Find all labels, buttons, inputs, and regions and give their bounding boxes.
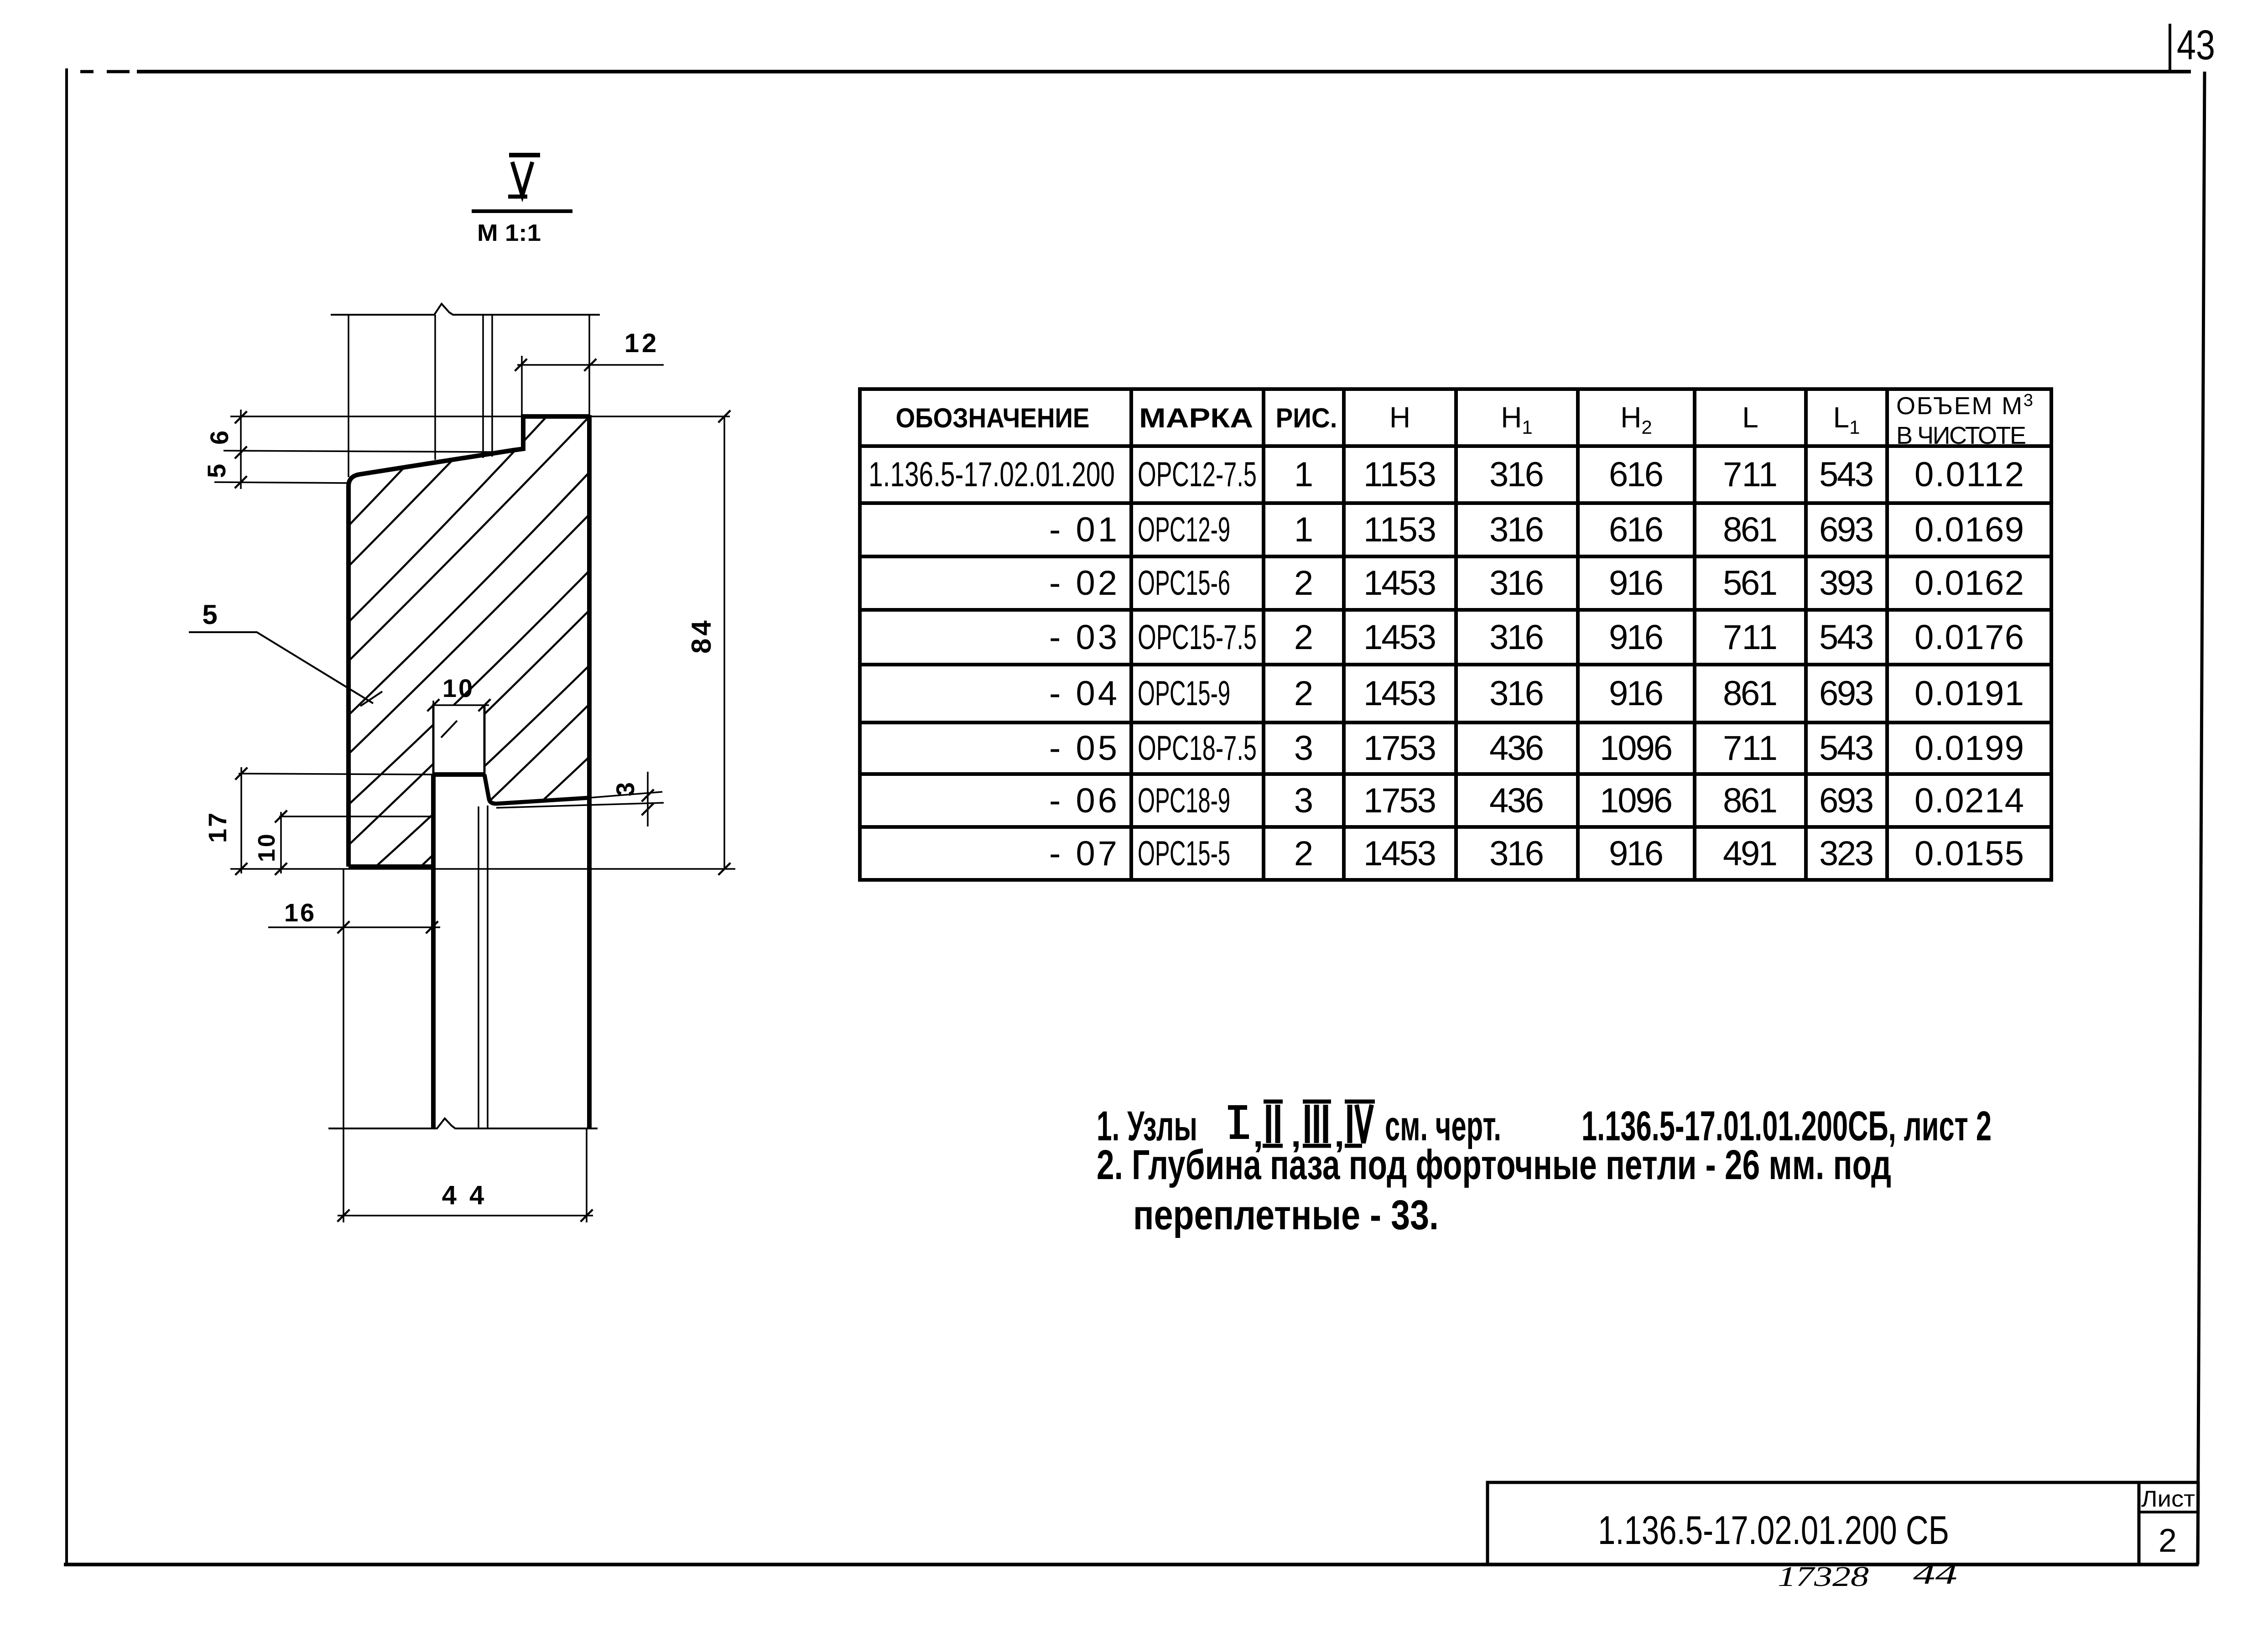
svg-text:2: 2 xyxy=(1294,618,1313,657)
svg-text:316: 316 xyxy=(1489,564,1544,603)
svg-text:436: 436 xyxy=(1489,729,1544,768)
svg-text:1753: 1753 xyxy=(1363,729,1436,768)
svg-text:543: 543 xyxy=(1819,729,1874,768)
svg-text:0.0162: 0.0162 xyxy=(1914,564,2024,603)
svg-text:861: 861 xyxy=(1723,674,1778,713)
svg-text:711: 711 xyxy=(1723,729,1778,768)
svg-text:1453: 1453 xyxy=(1363,834,1436,873)
svg-text:693: 693 xyxy=(1819,781,1874,820)
svg-text:ОРС15-7.5: ОРС15-7.5 xyxy=(1138,618,1257,657)
svg-text:84: 84 xyxy=(686,618,717,654)
svg-text:1.136.5-17.02.01.200: 1.136.5-17.02.01.200 xyxy=(869,455,1115,494)
svg-text:МАРКА: МАРКА xyxy=(1139,403,1253,433)
svg-text:916: 916 xyxy=(1609,674,1664,713)
svg-text:0.0155: 0.0155 xyxy=(1914,834,2024,873)
svg-text:861: 861 xyxy=(1723,781,1778,820)
svg-text:2: 2 xyxy=(2159,1523,2177,1559)
svg-text:ОРС15-6: ОРС15-6 xyxy=(1138,564,1230,603)
svg-text:711: 711 xyxy=(1723,455,1778,494)
svg-text:4 4: 4 4 xyxy=(442,1180,487,1210)
svg-text:693: 693 xyxy=(1819,674,1874,713)
svg-text:1: 1 xyxy=(1294,510,1313,549)
svg-text:17328: 17328 xyxy=(1778,1561,1869,1592)
svg-text:1753: 1753 xyxy=(1363,781,1436,820)
svg-text:491: 491 xyxy=(1723,834,1778,873)
svg-text:2: 2 xyxy=(1294,564,1313,603)
svg-text:3: 3 xyxy=(1294,729,1313,768)
svg-text:0.0112: 0.0112 xyxy=(1914,455,2024,494)
svg-text:ОРС12-7.5: ОРС12-7.5 xyxy=(1138,455,1257,494)
svg-text:711: 711 xyxy=(1723,618,1778,657)
svg-text:1153: 1153 xyxy=(1363,455,1436,494)
svg-text:1: 1 xyxy=(1294,455,1313,494)
svg-text:323: 323 xyxy=(1819,834,1874,873)
svg-text:ОБОЗНАЧЕНИЕ: ОБОЗНАЧЕНИЕ xyxy=(896,403,1090,433)
svg-text:переплетные - 33.: переплетные - 33. xyxy=(1133,1192,1439,1238)
svg-text:1453: 1453 xyxy=(1363,674,1436,713)
svg-text:12: 12 xyxy=(624,328,660,358)
svg-text:ОРС18-7.5: ОРС18-7.5 xyxy=(1138,729,1257,768)
svg-text:Лист: Лист xyxy=(2141,1486,2195,1512)
svg-text:916: 916 xyxy=(1609,564,1664,603)
svg-text:- 04: - 04 xyxy=(1049,674,1120,713)
svg-text:44: 44 xyxy=(1913,1559,1957,1590)
svg-text:0.0169: 0.0169 xyxy=(1914,510,2024,549)
svg-text:316: 316 xyxy=(1489,674,1544,713)
svg-text:Н: Н xyxy=(1389,401,1410,434)
svg-text:РИС.: РИС. xyxy=(1276,403,1337,433)
svg-text:0.0176: 0.0176 xyxy=(1914,618,2024,657)
svg-text:316: 316 xyxy=(1489,510,1544,549)
svg-text:ОРС15-9: ОРС15-9 xyxy=(1138,674,1230,713)
svg-text:3: 3 xyxy=(1294,781,1313,820)
svg-text:543: 543 xyxy=(1819,455,1874,494)
svg-text:- 02: - 02 xyxy=(1049,564,1120,603)
svg-text:616: 616 xyxy=(1609,510,1664,549)
svg-text:3: 3 xyxy=(611,782,640,796)
svg-text:10: 10 xyxy=(254,832,280,862)
svg-text:1096: 1096 xyxy=(1600,781,1673,820)
svg-text:393: 393 xyxy=(1819,564,1874,603)
svg-text:L: L xyxy=(1742,401,1758,434)
svg-text:916: 916 xyxy=(1609,618,1664,657)
svg-text:316: 316 xyxy=(1489,455,1544,494)
svg-text:- 01: - 01 xyxy=(1049,510,1120,549)
svg-text:916: 916 xyxy=(1609,834,1664,873)
svg-text:1.136.5-17.02.01.200 СБ: 1.136.5-17.02.01.200 СБ xyxy=(1598,1507,1949,1553)
svg-text:17: 17 xyxy=(203,811,232,843)
svg-text:0.0214: 0.0214 xyxy=(1914,781,2024,820)
svg-text:ОРС18-9: ОРС18-9 xyxy=(1138,781,1230,820)
svg-text:0.0199: 0.0199 xyxy=(1914,729,2024,768)
svg-text:0.0191: 0.0191 xyxy=(1914,674,2024,713)
svg-text:- 05: - 05 xyxy=(1049,729,1120,768)
svg-text:- 03: - 03 xyxy=(1049,618,1120,657)
svg-text:16: 16 xyxy=(284,898,316,927)
svg-text:- 06: - 06 xyxy=(1049,781,1120,820)
svg-text:ОРС15-5: ОРС15-5 xyxy=(1138,834,1230,873)
svg-text:10: 10 xyxy=(442,674,474,702)
svg-text:ОБЪЕМ М3: ОБЪЕМ М3 xyxy=(1896,391,2033,420)
svg-text:1096: 1096 xyxy=(1600,729,1673,768)
svg-text:861: 861 xyxy=(1723,510,1778,549)
svg-text:1453: 1453 xyxy=(1363,564,1436,603)
svg-text:1453: 1453 xyxy=(1363,618,1436,657)
svg-text:2: 2 xyxy=(1294,834,1313,873)
svg-text:2: 2 xyxy=(1294,674,1313,713)
svg-text:В ЧИСТОТЕ: В ЧИСТОТЕ xyxy=(1896,422,2026,449)
svg-text:43: 43 xyxy=(2177,22,2215,68)
svg-text:6: 6 xyxy=(205,431,234,445)
svg-text:436: 436 xyxy=(1489,781,1544,820)
svg-text:5: 5 xyxy=(202,599,217,630)
svg-text:543: 543 xyxy=(1819,618,1874,657)
svg-text:316: 316 xyxy=(1489,834,1544,873)
svg-text:616: 616 xyxy=(1609,455,1664,494)
svg-text:5: 5 xyxy=(202,464,231,478)
svg-text:561: 561 xyxy=(1723,564,1778,603)
svg-text:1153: 1153 xyxy=(1363,510,1436,549)
svg-text:316: 316 xyxy=(1489,618,1544,657)
svg-text:693: 693 xyxy=(1819,510,1874,549)
svg-text:2. Глубина паза под форточн: 2. Глубина паза под форточные петли - 26… xyxy=(1097,1142,1891,1188)
svg-text:ОРС12-9: ОРС12-9 xyxy=(1138,510,1230,549)
svg-text:М 1:1: М 1:1 xyxy=(477,220,541,246)
svg-text:- 07: - 07 xyxy=(1049,834,1120,873)
